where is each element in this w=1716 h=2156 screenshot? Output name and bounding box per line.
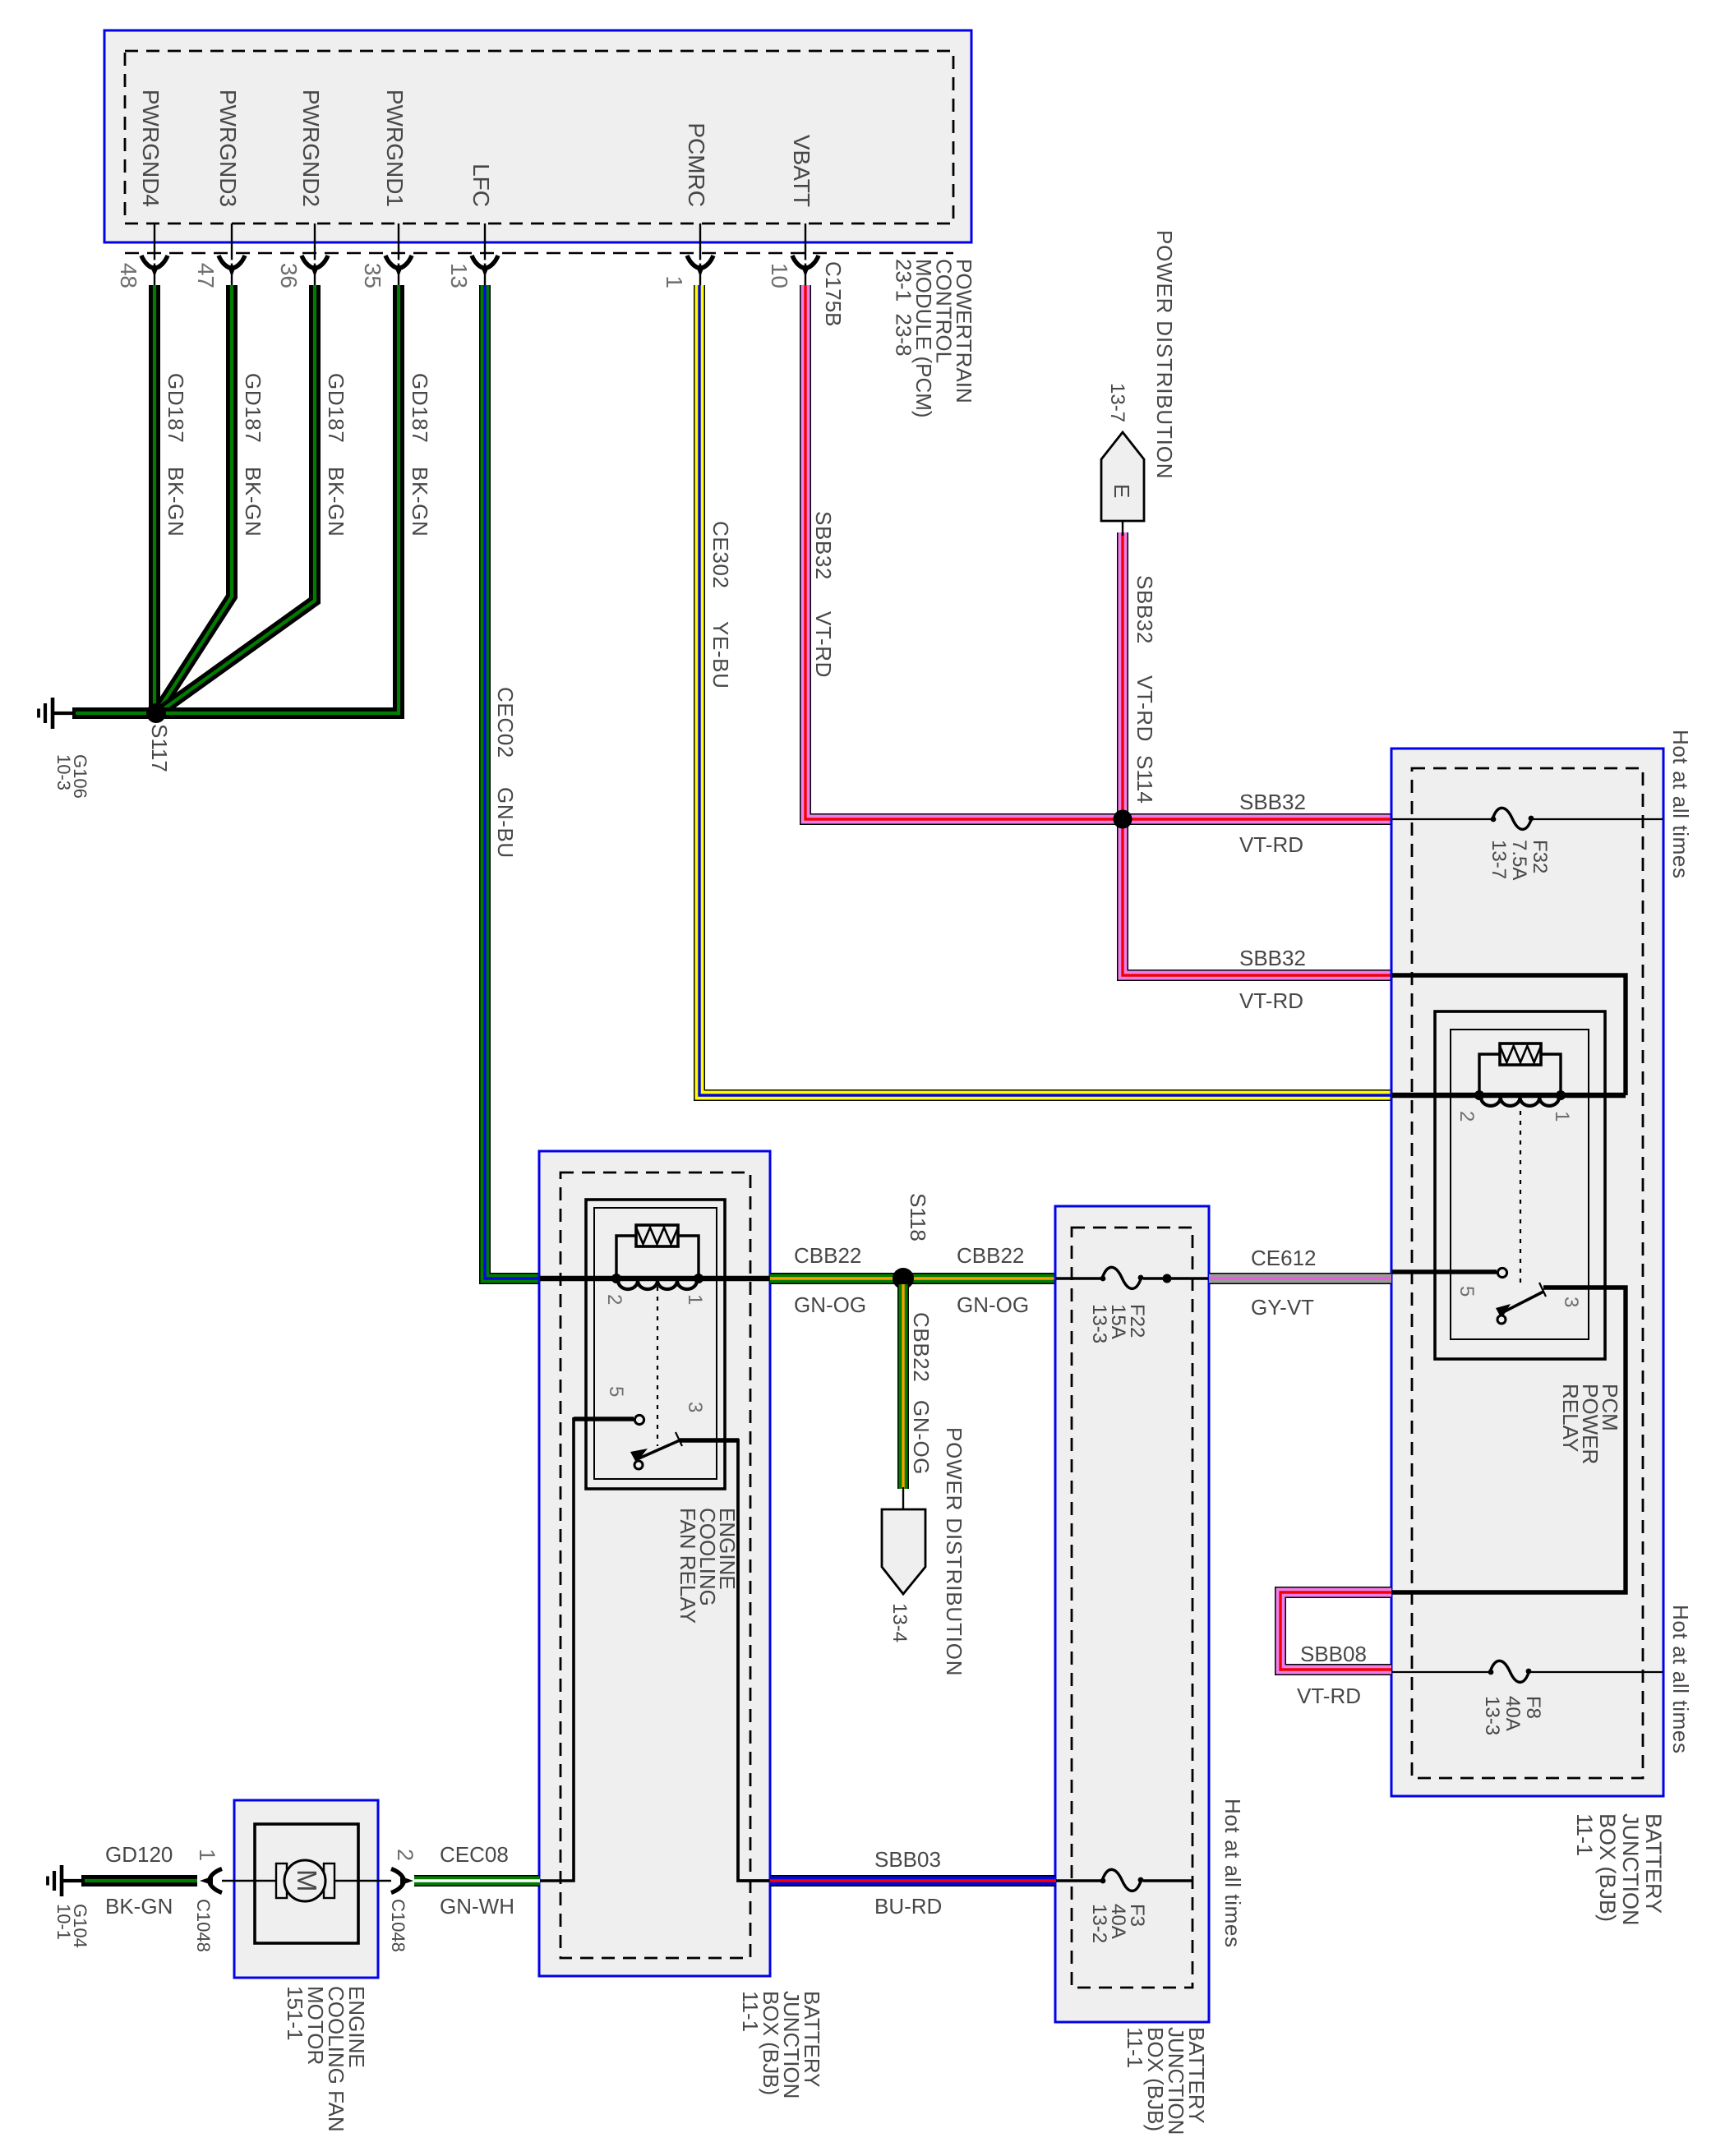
svg-text:C175B: C175B: [821, 261, 846, 327]
stub to arrow 13-4: [902, 1487, 904, 1511]
relay switch blade: [1496, 1283, 1546, 1319]
svg-text:BK-GN: BK-GN: [164, 467, 188, 537]
ground stem G106: [53, 712, 76, 715]
connector C1048 pin 2 terminal: [391, 1869, 413, 1893]
fan relay coil line (pin2-pin1): [540, 1276, 769, 1282]
relay pin 1 junction: [1556, 1090, 1566, 1100]
fuse F22 feed line: [1056, 1277, 1208, 1280]
svg-text:13-4: 13-4: [888, 1603, 911, 1642]
svg-text:S118: S118: [906, 1193, 930, 1242]
relay pin 3 line to SBB08: [1392, 1288, 1626, 1592]
svg-text:5: 5: [1455, 1286, 1478, 1297]
battery junction box BJB (right): [1391, 749, 1663, 1796]
svg-text:GN-OG: GN-OG: [794, 1292, 866, 1317]
connector terminal pin 13 (LFC): [472, 256, 498, 277]
svg-text:F2215A13-3: F2215A13-3: [1088, 1304, 1148, 1343]
stub from arrow E: [1122, 518, 1123, 536]
fan relay pin 5 line: [574, 1417, 634, 1421]
svg-text:GD187: GD187: [408, 373, 432, 443]
wire GD187 BK-GN from pin 35: [164, 285, 399, 713]
svg-text:VT-RD: VT-RD: [1239, 988, 1303, 1013]
svg-text:3: 3: [684, 1402, 706, 1412]
svg-text:BK-GN: BK-GN: [408, 467, 432, 537]
svg-text:VT-RD: VT-RD: [1239, 832, 1303, 857]
wire GD187 BK-GN from pin 48: [149, 285, 160, 714]
svg-text:CBB22: CBB22: [909, 1312, 934, 1382]
power distribution arrow E (to 13-7): [1101, 432, 1144, 521]
ground stem G104: [62, 1879, 85, 1882]
pin stub PWRGND3: [231, 223, 233, 285]
svg-text:YE-BU: YE-BU: [708, 621, 733, 689]
connector terminal pin 10 (VBATT): [792, 256, 819, 277]
svg-text:LFC: LFC: [468, 164, 494, 207]
wire CBB22 GN-OG branch to power distribution: [897, 1284, 909, 1489]
svg-text:Hot at all times: Hot at all times: [1220, 1799, 1245, 1948]
svg-text:GD187: GD187: [164, 373, 188, 443]
PCM relay suppression resistor: [1500, 1043, 1541, 1065]
PCM power relay outer box: [1435, 1011, 1605, 1359]
middle BJB dashed border: [1072, 1228, 1192, 1988]
relay pin 5 line: [1392, 1269, 1497, 1274]
svg-text:BK-GN: BK-GN: [105, 1894, 173, 1919]
connector terminal pin 48 (PWRGND4): [141, 256, 168, 277]
connector C1048 pin 1 terminal: [200, 1869, 222, 1893]
svg-text:VT-RD: VT-RD: [811, 611, 836, 678]
svg-text:2: 2: [393, 1849, 417, 1861]
relay armature dotted link: [1520, 1111, 1521, 1284]
fan relay pin 2 junction: [611, 1274, 621, 1283]
motor circle M: [284, 1860, 325, 1901]
svg-text:5: 5: [605, 1386, 627, 1397]
motor brush right: [324, 1863, 334, 1898]
fuse F32 feed line: [1392, 818, 1663, 820]
svg-text:BK-GN: BK-GN: [324, 467, 348, 537]
svg-text:CE302: CE302: [708, 521, 733, 589]
svg-text:48: 48: [116, 263, 141, 288]
fan relay suppression resistor: [636, 1225, 678, 1246]
svg-text:S114: S114: [1132, 755, 1157, 804]
pin stub PWRGND4: [154, 223, 155, 285]
pin stub VBATT: [805, 223, 806, 285]
engine cooling fan motor box: [234, 1800, 378, 1978]
svg-text:C1048: C1048: [388, 1899, 408, 1952]
svg-text:CBB22: CBB22: [957, 1243, 1024, 1268]
svg-text:GN-WH: GN-WH: [440, 1894, 514, 1919]
engine cooling fan relay outer box: [586, 1200, 725, 1489]
wire SBB32 VT-RD from arrow E through S114: [1123, 532, 1392, 975]
svg-text:VT-RD: VT-RD: [1297, 1684, 1361, 1708]
PCM power relay inner box: [1451, 1030, 1589, 1339]
relay blade pivot circle: [1497, 1315, 1506, 1324]
pin stub PWRGND1: [398, 223, 399, 285]
svg-text:CEC08: CEC08: [440, 1842, 509, 1867]
wire SBB03 BU-RD from fan relay pin 3 to fuse F3: [770, 1875, 1056, 1886]
svg-text:GN-OG: GN-OG: [957, 1292, 1029, 1317]
connector terminal pin 35 (PWRGND1): [385, 256, 412, 277]
svg-text:POWER DISTRIBUTION: POWER DISTRIBUTION: [1152, 230, 1177, 479]
svg-text:SBB32: SBB32: [1239, 790, 1306, 814]
wire GD187 BK-GN from pin 47: [157, 285, 232, 712]
wire SBB32 VT-RD from pin 10 to fuse F32: [805, 285, 1392, 819]
fan relay blade pivot circle: [634, 1461, 643, 1469]
engine cooling fan relay inner box: [594, 1208, 717, 1479]
PCM module box (POWERTRAIN CONTROL MODULE): [104, 30, 971, 242]
fan relay pin 5 line to CEC08: [540, 1417, 574, 1881]
svg-text:SBB32: SBB32: [1239, 946, 1306, 970]
battery junction box BJB (fan relay): [539, 1151, 770, 1976]
svg-text:13-7: 13-7: [1106, 383, 1128, 422]
motor brush left: [276, 1863, 287, 1898]
svg-text:47: 47: [193, 263, 219, 288]
svg-text:SBB03: SBB03: [874, 1847, 941, 1872]
ground symbol G104: [48, 1865, 62, 1896]
svg-text:S117: S117: [147, 724, 172, 772]
svg-text:VBATT: VBATT: [789, 135, 814, 207]
PCM relay coil: [1481, 1098, 1559, 1106]
fan relay BJB dashed border: [560, 1172, 750, 1958]
svg-text:BK-GN: BK-GN: [241, 467, 265, 537]
svg-text:GD187: GD187: [324, 373, 348, 443]
splice node S117: [146, 703, 166, 723]
svg-text:GD187: GD187: [241, 373, 265, 443]
wire GD187 BK-GN from pin 36: [158, 285, 315, 713]
F22 output junction: [1163, 1274, 1172, 1283]
svg-text:10: 10: [767, 263, 792, 288]
svg-text:GY-VT: GY-VT: [1251, 1295, 1314, 1320]
splice node S118: [893, 1268, 914, 1289]
svg-text:13: 13: [446, 263, 472, 288]
svg-text:CE612: CE612: [1251, 1246, 1317, 1270]
fan relay pin 1 junction: [694, 1274, 703, 1283]
svg-text:BU-RD: BU-RD: [874, 1894, 942, 1919]
power distribution arrow (to 13-4): [882, 1509, 925, 1594]
fuse F32 element: [1491, 808, 1534, 829]
svg-text:CEC02: CEC02: [493, 687, 518, 758]
svg-text:POWER DISTRIBUTION: POWER DISTRIBUTION: [942, 1427, 966, 1676]
svg-text:Hot at all times: Hot at all times: [1668, 1605, 1693, 1754]
pin stub PWRGND2: [314, 223, 316, 285]
fan relay pin 5 terminal circle: [634, 1415, 643, 1424]
splice node S114: [1114, 810, 1132, 829]
relay feed from SBB32 run2 to pin 1: [1392, 975, 1626, 1095]
svg-text:SBB08: SBB08: [1300, 1642, 1367, 1666]
relay pin 5 terminal circle: [1497, 1268, 1506, 1277]
motor feed line: [222, 1880, 391, 1882]
resistor link pin1: [1541, 1054, 1561, 1095]
wire to ground G106: [72, 707, 156, 719]
svg-text:1: 1: [662, 275, 687, 288]
ground symbol G106: [39, 698, 53, 729]
fan relay switch blade: [630, 1432, 682, 1463]
svg-text:Hot at all times: Hot at all times: [1668, 730, 1693, 879]
svg-text:3: 3: [1560, 1297, 1582, 1307]
fuse F22 element: [1100, 1267, 1144, 1288]
svg-text:1: 1: [1551, 1111, 1573, 1122]
svg-text:PWRGND4: PWRGND4: [138, 90, 164, 207]
svg-text:PCMRC: PCMRC: [684, 122, 709, 207]
fan relay armature dotted link: [657, 1287, 658, 1446]
fan resistor link pin1: [678, 1236, 699, 1278]
svg-text:PWRGND2: PWRGND2: [298, 90, 324, 207]
connector C175B dashed line: [125, 252, 953, 255]
svg-text:GN-BU: GN-BU: [493, 787, 518, 859]
fuse F3 feed line: [1056, 1879, 1192, 1882]
wire CEC02 GN-BU from pin 13 to fan relay: [485, 285, 540, 1278]
svg-text:CBB22: CBB22: [794, 1243, 861, 1268]
svg-text:GN-OG: GN-OG: [909, 1400, 934, 1475]
svg-text:2: 2: [603, 1294, 625, 1305]
motor inner box: [255, 1824, 358, 1943]
battery junction box BJB (middle): [1055, 1206, 1209, 2022]
svg-text:36: 36: [276, 263, 302, 288]
svg-text:VT-RD: VT-RD: [1132, 675, 1157, 742]
pin stub LFC: [484, 223, 486, 285]
resistor link pin2: [1479, 1054, 1500, 1095]
svg-text:PWRGND1: PWRGND1: [382, 90, 408, 207]
fan resistor link pin2: [616, 1236, 636, 1278]
fan relay pin 3 line (blade side): [680, 1438, 739, 1442]
fan relay pin 3 drop to SBB03: [738, 1439, 769, 1881]
svg-text:1: 1: [195, 1849, 219, 1861]
right BJB dashed border: [1412, 768, 1643, 1778]
svg-text:35: 35: [360, 263, 385, 288]
connector terminal pin 47 (PWRGND3): [219, 256, 245, 277]
PCM module inner dashed border: [125, 51, 953, 223]
fuse F3 element: [1100, 1869, 1144, 1891]
wire SBB08 VT-RD loop to fuse F8: [1280, 1592, 1391, 1670]
connector terminal pin 1 (PCMRC): [687, 256, 713, 277]
svg-text:E: E: [1109, 484, 1134, 498]
svg-text:1: 1: [684, 1294, 706, 1305]
wire CBB22 GN-OG from fan relay pin 1 to fuse F22: [770, 1273, 1056, 1284]
fuse F8 feed line: [1392, 1671, 1663, 1673]
relay coil line (pin2-pin1): [1392, 1093, 1626, 1099]
fan relay coil: [618, 1281, 697, 1290]
wire CEC08 GN-WH from motor pin 2 to fan relay: [414, 1875, 540, 1886]
relay pin 2 junction: [1474, 1090, 1484, 1100]
wire GD120 BK-GN to ground G104: [81, 1875, 197, 1886]
fuse F8 element: [1488, 1661, 1532, 1682]
svg-text:M: M: [292, 1869, 322, 1892]
svg-text:2: 2: [1455, 1111, 1478, 1122]
wire CE302 YE-BU from pin 1 to PCM power relay coil: [699, 285, 1392, 1095]
svg-text:PWRGND3: PWRGND3: [215, 90, 241, 207]
svg-text:SBB32: SBB32: [811, 511, 836, 580]
svg-text:GD120: GD120: [105, 1842, 173, 1867]
pin stub PCMRC: [699, 223, 701, 285]
svg-text:C1048: C1048: [193, 1899, 214, 1952]
connector terminal pin 36 (PWRGND2): [302, 256, 328, 277]
wire CE612 GY-VT from fuse F22 to relay pin 5: [1209, 1273, 1391, 1284]
svg-text:SBB32: SBB32: [1132, 575, 1157, 644]
